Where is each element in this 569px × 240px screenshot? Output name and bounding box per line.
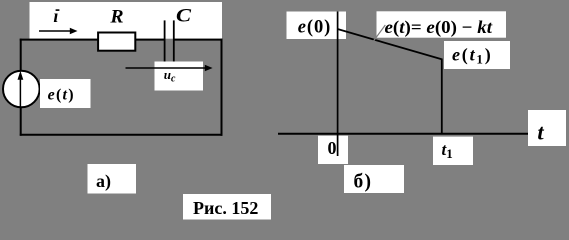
resistor R xyxy=(98,33,135,51)
caption box xyxy=(183,194,271,220)
svg-text:а): а) xyxy=(96,171,111,192)
svg-text:C: C xyxy=(176,6,192,26)
svg-text:e(t): e(t) xyxy=(48,86,74,103)
capacitor C plate right xyxy=(173,20,175,61)
source e(t) circle xyxy=(3,71,40,108)
svg-text:e(t)= e(0) − kt: e(t)= e(0) − kt xyxy=(385,17,494,38)
label box u_c xyxy=(155,62,204,91)
ordinate line at t1 xyxy=(441,59,443,134)
svg-text:e(t1): e(t1) xyxy=(452,45,491,67)
label box a) xyxy=(88,164,137,194)
label box 0 xyxy=(318,136,348,164)
svg-text:t: t xyxy=(537,119,544,144)
svg-text:Рис. 152: Рис. 152 xyxy=(193,198,258,218)
y-axis xyxy=(337,12,339,157)
wire right xyxy=(221,39,223,136)
discharge line xyxy=(338,29,442,59)
label box strip (i R C) xyxy=(30,2,223,39)
label box e(t1) xyxy=(444,41,510,69)
svg-text:б): б) xyxy=(354,172,373,193)
svg-text:0: 0 xyxy=(328,138,337,158)
formula box xyxy=(377,11,507,37)
svg-text:e(0): e(0) xyxy=(298,17,331,37)
x-axis xyxy=(278,133,529,135)
leader line xyxy=(374,25,386,41)
label box e(t) xyxy=(40,79,91,108)
voltage arrow u_c xyxy=(126,65,213,72)
wire top-left segment xyxy=(20,39,165,41)
label box b) xyxy=(344,165,404,193)
wire left xyxy=(20,39,22,136)
source arrow xyxy=(18,71,24,107)
capacitor C plate left xyxy=(164,20,166,61)
svg-text:R: R xyxy=(109,8,123,28)
label box e(0) xyxy=(287,12,347,40)
svg-text:ı: ı xyxy=(53,6,58,26)
current label i xyxy=(53,6,59,26)
wire top-right segment xyxy=(174,39,223,41)
label box t1 xyxy=(433,137,473,165)
label box t xyxy=(528,110,566,146)
wire bottom xyxy=(20,134,223,136)
current arrow i xyxy=(39,28,78,35)
